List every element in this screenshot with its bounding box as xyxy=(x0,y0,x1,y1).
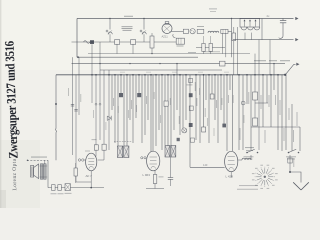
capacitor C9 xyxy=(58,185,62,191)
label stage3 values xyxy=(205,95,229,117)
wire drop x96 grid feed xyxy=(94,75,98,157)
shield dashed speaker xyxy=(27,159,48,161)
coil pack L4 trimmer box xyxy=(240,18,260,27)
resistor R6 xyxy=(209,43,212,51)
wire drop x76 xyxy=(76,75,91,182)
wire bus L3 xyxy=(72,63,286,65)
label stage1 values xyxy=(113,96,147,109)
wire drop x92 xyxy=(91,44,93,103)
tube V3 output xyxy=(225,151,238,171)
wire comb stage3 xyxy=(190,75,233,167)
resistor R1 xyxy=(115,40,120,54)
svg-text:L 428: L 428 xyxy=(226,175,234,179)
wire coil tap a xyxy=(244,33,246,40)
transformer Tr1 heater winding xyxy=(173,34,185,46)
component column far right xyxy=(288,158,294,167)
wire to chassis earth xyxy=(290,172,301,183)
node bus L2 left xyxy=(77,56,79,58)
lamp symbol La4 xyxy=(182,128,187,133)
component column blobs xyxy=(189,79,198,143)
wire drop x72.5 xyxy=(72,57,74,155)
label 0,1 xyxy=(187,84,193,87)
wire top rail xyxy=(77,18,294,20)
rectifier tube AZ11 xyxy=(162,22,172,34)
wire heater rail xyxy=(72,41,177,43)
wire V3 cathode stub xyxy=(230,172,232,178)
resistor R14 xyxy=(74,163,77,183)
resistor R7 osc xyxy=(232,27,236,75)
svg-text:AZ11: AZ11 xyxy=(162,35,169,39)
choke box L2 xyxy=(183,29,188,33)
wire R6 drop xyxy=(210,51,212,53)
wire R5 drop xyxy=(203,51,205,53)
capacitor C4 blob xyxy=(119,93,123,97)
wire left frame xyxy=(76,19,78,58)
wire drop x292 xyxy=(291,104,293,151)
node bottom rail xyxy=(90,187,92,189)
label column texts right xyxy=(240,92,298,143)
svg-text:Lorenz Opta: Lorenz Opta xyxy=(12,158,19,190)
wire drop x270 xyxy=(269,40,271,75)
rotary band switch plan view xyxy=(252,165,278,189)
wire filter row xyxy=(196,47,225,49)
tube V1 pin circles xyxy=(78,159,85,161)
capacitor C11 below F2 xyxy=(168,157,173,186)
label 2x50uF xyxy=(188,51,196,54)
chassis earth arrow xyxy=(293,182,309,190)
resistor R12 xyxy=(253,118,258,126)
capacitor C10 box xyxy=(65,184,70,191)
wire bus L1 xyxy=(88,53,250,55)
svg-text:L 963: L 963 xyxy=(143,173,151,177)
wire antenna feed x56 xyxy=(55,75,57,161)
terminal circles x96 x100 xyxy=(95,103,101,105)
resistor R9 xyxy=(210,94,214,99)
tube V2 pin circles xyxy=(141,157,146,159)
wire drop x104 anode feed xyxy=(98,70,107,160)
labels under caps xyxy=(51,193,72,194)
wire main HT bus xyxy=(56,74,285,76)
wire bottom rail left xyxy=(48,187,104,189)
resistor R2 xyxy=(131,40,136,54)
wire comb stage1 xyxy=(112,75,151,152)
fuse Si with mains squiggle xyxy=(84,40,95,44)
wire vertical B+ drop xyxy=(231,19,233,57)
wire grid feed y167 xyxy=(190,166,225,168)
arrow HT output xyxy=(296,63,299,66)
wire coil tap b xyxy=(251,33,253,40)
wire switch to earth node xyxy=(289,155,291,173)
diode detector D1 xyxy=(107,70,111,150)
svg-text:140: 140 xyxy=(203,163,208,167)
resistor R10 xyxy=(202,127,206,132)
label small mark x92 xyxy=(92,138,97,141)
switch S1a xyxy=(244,149,259,159)
wire speaker top xyxy=(44,160,46,164)
capacitor C8 xyxy=(52,185,56,191)
wire comb stage2 xyxy=(153,64,186,151)
IF transformer F1 xyxy=(118,146,129,158)
arrow antenna xyxy=(295,38,298,41)
label voltage table xyxy=(122,16,134,31)
capacitor C5 blob xyxy=(137,93,141,97)
label speaker type xyxy=(31,156,47,159)
inductor L3 xyxy=(208,31,219,33)
resistor R8 xyxy=(164,101,168,106)
IF transformer F2 xyxy=(165,146,176,158)
wire comb stage4 xyxy=(239,64,286,151)
tube V2 RES964 xyxy=(147,151,160,171)
label above rail xyxy=(209,9,217,12)
label 5000 xyxy=(245,147,254,151)
capacitor C6 blob xyxy=(222,124,226,128)
wire C1 terminal a xyxy=(222,33,224,53)
inductor L6 xyxy=(242,158,251,160)
wire osc grid xyxy=(237,27,239,75)
label dial note xyxy=(237,185,258,189)
label heater voltages xyxy=(204,51,290,61)
resistor R3 dropper xyxy=(150,33,154,54)
wire drop x300 xyxy=(299,127,301,151)
electrolytic C1 block xyxy=(221,29,228,33)
transformer Tr2 output xyxy=(39,164,47,179)
wire drop x259 from antenna rail xyxy=(258,40,260,150)
wire to node B+ xyxy=(228,30,232,32)
wire drop x100 xyxy=(99,42,101,140)
tube V1 AF7 xyxy=(86,153,97,171)
wire V2 bottom xyxy=(146,188,164,190)
resistor R4 xyxy=(197,26,204,33)
capacitor blob C12 xyxy=(177,138,180,141)
loudspeaker LS xyxy=(31,164,39,179)
pilot lamp La2 xyxy=(140,19,146,43)
wire R5 top stub xyxy=(203,36,205,43)
resistor R5 xyxy=(202,43,205,51)
node HT bus right xyxy=(284,74,286,76)
wire x48 drop xyxy=(47,160,49,187)
inductor L5 winding xyxy=(241,27,260,30)
wire bus L4 xyxy=(100,69,222,71)
capacitor C3 marks xyxy=(71,105,78,112)
wire HT riser diagonal xyxy=(285,64,295,74)
wire V1 cathode drop xyxy=(90,171,92,188)
pilot lamp La1 xyxy=(106,19,112,43)
bus junction dots xyxy=(91,18,279,76)
capacitor C2 coupling xyxy=(279,19,287,39)
misc value labels xyxy=(68,72,244,152)
lamp symbol La3 xyxy=(190,29,195,34)
wire antenna rail xyxy=(233,39,294,41)
wire C1 terminal b xyxy=(225,33,227,57)
trimmer C7 xyxy=(241,101,245,105)
wire drop x255 xyxy=(254,54,256,118)
wire link y127 xyxy=(251,126,300,128)
node shield left xyxy=(27,160,29,162)
wire L6 up xyxy=(250,155,252,160)
resistor R11 xyxy=(253,92,258,100)
wire R6 top stub xyxy=(210,36,212,43)
wire bus L2 xyxy=(78,56,198,58)
resistor R13 cathode xyxy=(153,171,163,189)
wire link y103 xyxy=(255,102,268,104)
wire rectifier anode chain xyxy=(171,30,183,32)
fuse box on L3 xyxy=(220,61,226,66)
shield dashed F1 xyxy=(114,141,132,143)
arrow top rail output xyxy=(295,17,298,20)
wire osc anode x262 xyxy=(261,19,263,40)
wire V3 anode right xyxy=(238,159,242,161)
switch S1b xyxy=(286,149,299,159)
wire drop x79 xyxy=(78,57,80,115)
